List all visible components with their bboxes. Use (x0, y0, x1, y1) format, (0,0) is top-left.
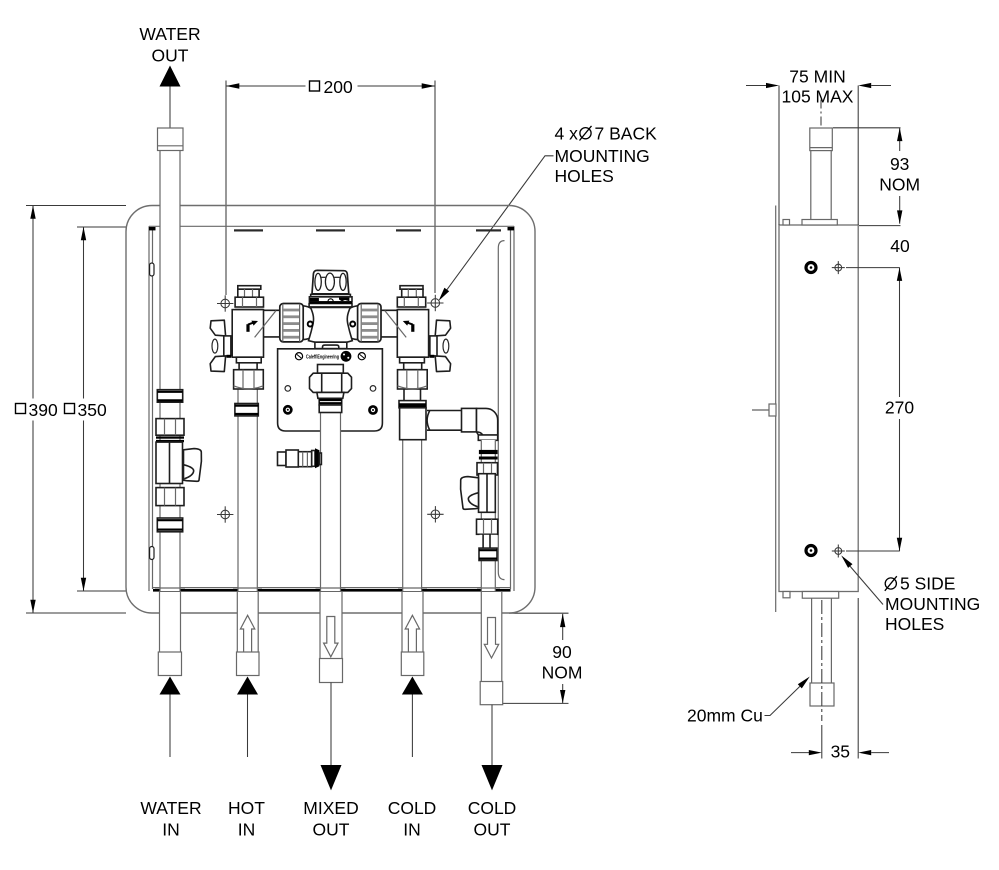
side bottom pipe cap (810, 683, 834, 706)
plate holes (285, 386, 291, 392)
solder collar (157, 390, 182, 403)
pipe mixed out tube (316, 392, 346, 591)
svg-text:COLD: COLD (468, 798, 517, 818)
branch tube to elbow (427, 411, 462, 431)
below-box pipe cold in with open arrow (401, 592, 424, 757)
dimension 35 (791, 598, 889, 762)
mounting plate (278, 349, 383, 431)
back mounting hole bottom-left (217, 506, 233, 522)
neck (480, 535, 498, 548)
check valve assembly hot (left) (210, 286, 280, 389)
hex flange (235, 297, 263, 307)
svg-text:HOLES: HOLES (885, 614, 944, 634)
svg-text:MOUNTING: MOUNTING (555, 146, 650, 166)
svg-text:200: 200 (324, 77, 353, 97)
svg-text:IN: IN (403, 820, 421, 840)
dimension 200 square between back holes (226, 77, 435, 295)
dimension 93 NOM (833, 128, 920, 226)
TMV mixing valve center (280, 270, 381, 348)
svg-text:HOT: HOT (228, 798, 265, 818)
svg-text:270: 270 (885, 398, 914, 418)
svg-text:350: 350 (78, 400, 107, 420)
logo gear (341, 351, 352, 362)
svg-text:390: 390 (29, 400, 58, 420)
branch union coupling (462, 408, 477, 432)
cold pipe neck (403, 389, 405, 401)
pipe cold in vertical tube (398, 430, 427, 591)
knob (312, 270, 349, 294)
valve body (156, 442, 183, 483)
water out pipe cap (158, 128, 184, 151)
bottom pipe centerline (821, 600, 823, 721)
pipe hot in vertical tube (233, 386, 262, 591)
svg-text:IN: IN (238, 820, 256, 840)
dimension 270 (846, 268, 914, 551)
hinge tab lower (150, 547, 154, 560)
back mounting hole bottom-right (427, 506, 443, 522)
shoulder band (309, 304, 352, 307)
svg-text:NOM: NOM (879, 175, 920, 195)
leader to back mounting hole (441, 156, 554, 298)
side mounting hole upper (832, 261, 845, 274)
leader to side mounting hole (849, 565, 883, 605)
below-box pipe mixed out with open arrow (320, 592, 343, 790)
drain test fitting on mixed pipe (278, 448, 322, 468)
back mounting hole top-right (427, 295, 443, 311)
svg-text:5 SIDE: 5 SIDE (900, 574, 955, 594)
back mounting hole top-left (217, 295, 233, 311)
side mounting hole lower (832, 545, 845, 558)
side view box body (779, 225, 858, 592)
water in isolating valve stack (156, 390, 201, 532)
solder collar (479, 548, 497, 560)
svg-text:WATER: WATER (139, 24, 200, 44)
lever handle (184, 449, 202, 482)
lever handle left (461, 477, 479, 510)
label 4 x dia7 back mounting holes (555, 124, 658, 187)
door latch pin (752, 404, 776, 416)
svg-text:93: 93 (890, 154, 909, 174)
dimension 90 NOM (503, 613, 583, 703)
svg-text:COLD: COLD (388, 798, 437, 818)
valve body (479, 474, 496, 513)
water out flow arrow (160, 66, 181, 87)
union nut right (358, 304, 381, 342)
svg-text:HOLES: HOLES (555, 166, 614, 186)
svg-text:OUT: OUT (474, 820, 511, 840)
hinge tab upper (150, 263, 154, 276)
TMV outlet ribbed ring (319, 398, 342, 405)
side bottom pipe tube (811, 598, 813, 683)
side top pipe tube (810, 151, 812, 220)
dimension 390 square (16, 206, 127, 614)
dimension 75 MIN 105 MAX (746, 67, 891, 226)
svg-text:IN: IN (162, 820, 180, 840)
centerline above top pipe (820, 100, 822, 128)
TMV outlet neck (317, 392, 344, 398)
svg-text:90: 90 (552, 642, 572, 662)
svg-text:75 MIN: 75 MIN (789, 67, 845, 87)
enclosure box outer shell (126, 206, 535, 614)
side top pipe cap (810, 128, 833, 151)
svg-text:105 MAX: 105 MAX (782, 87, 854, 107)
bottom rail (153, 589, 511, 592)
valve body (309, 307, 353, 342)
TMV outlet hex nut (310, 373, 352, 392)
svg-text:WATER: WATER (140, 798, 201, 818)
side screw hole upper (806, 263, 816, 273)
interior right panel (498, 241, 504, 580)
connection stub to union (264, 309, 281, 311)
TMV outlet collar (319, 405, 342, 413)
cap top (238, 286, 261, 290)
plate screws (283, 405, 293, 415)
elbow cold out (477, 408, 498, 440)
neck below (236, 357, 261, 363)
side top flange tab (783, 220, 790, 226)
port screws (308, 322, 313, 327)
upper fitting (477, 463, 498, 475)
side top pipe flange (802, 220, 837, 226)
side screw hole lower (806, 546, 816, 556)
leader to copper pipe (765, 686, 801, 716)
svg-text:NOM: NOM (542, 663, 583, 683)
svg-text:4 x: 4 x (555, 124, 579, 144)
label dia5 side mounting holes (885, 574, 980, 635)
hot pipe solder collar below check valve (235, 404, 258, 416)
test cock butterfly handle (210, 320, 225, 336)
marks band (309, 297, 352, 302)
svg-text:CaleffiEngineering: CaleffiEngineering (306, 354, 339, 360)
compression hex (234, 370, 264, 389)
face slots on top edge (234, 229, 263, 231)
enclosure inner frame (149, 226, 514, 591)
tee body (232, 310, 263, 358)
svg-text:OUT: OUT (152, 46, 189, 66)
hex upper (238, 289, 259, 298)
logo screws (295, 353, 302, 360)
side view rear mounting plate (775, 206, 777, 613)
hex nut (477, 519, 498, 534)
below-box pipe water in (158, 592, 181, 757)
cold branch tee body (400, 408, 426, 440)
svg-text:MIXED: MIXED (303, 798, 358, 818)
coupler cones (303, 306, 312, 340)
rings (156, 436, 184, 438)
flow arrow glyph (246, 324, 249, 332)
dimension 350 square (65, 227, 127, 591)
below-box pipe hot in with open arrow (237, 592, 260, 757)
union nut left (280, 304, 303, 342)
svg-text:MOUNTING: MOUNTING (885, 594, 980, 614)
svg-text:7 BACK: 7 BACK (595, 124, 658, 144)
solder collar lower (157, 518, 182, 532)
below-box pipe cold out with open arrow (480, 592, 503, 790)
compression nut (156, 419, 184, 436)
cold out valve stack (461, 440, 500, 591)
compression nut lower (156, 488, 184, 506)
svg-text:OUT: OUT (313, 820, 350, 840)
union rings (479, 450, 498, 454)
svg-text:20mm Cu: 20mm Cu (687, 706, 763, 726)
pipe water in/out vertical tube (155, 128, 185, 591)
TMV outlet stub (318, 365, 344, 374)
check valve assembly cold (right, mirrored) (380, 286, 450, 389)
knob skirt (311, 294, 351, 296)
svg-text:40: 40 (890, 236, 910, 256)
body bottom band (315, 342, 347, 348)
cold pipe collar with dark stripes (399, 401, 426, 408)
svg-text:35: 35 (831, 742, 850, 762)
side bottom flange (802, 592, 838, 599)
neck line (235, 309, 264, 311)
